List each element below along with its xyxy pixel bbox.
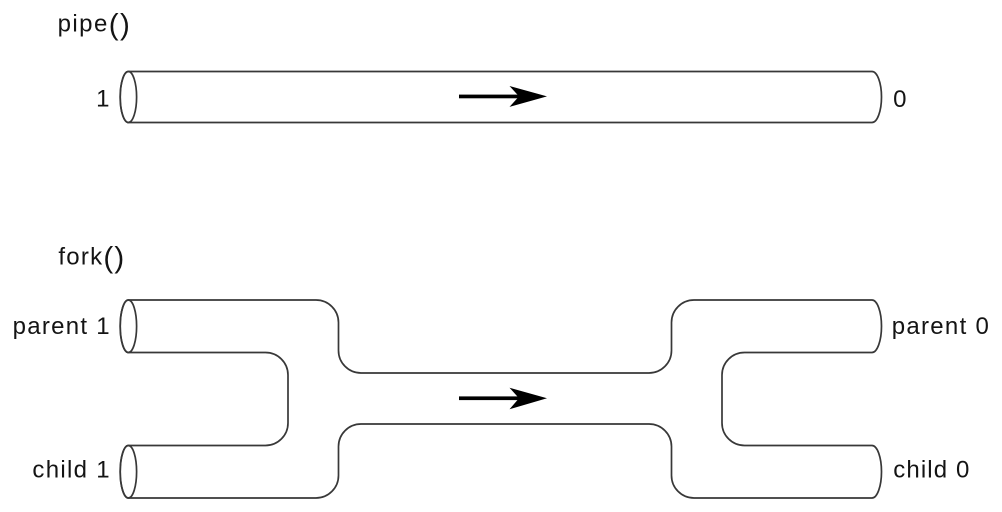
svg-text:1: 1 [96, 85, 109, 112]
svg-text:child 1: child 1 [32, 457, 110, 484]
svg-text:child 0: child 0 [893, 457, 970, 484]
svg-text:fork(): fork() [58, 242, 125, 275]
svg-text:pipe(): pipe() [58, 8, 132, 41]
svg-text:0: 0 [893, 86, 906, 113]
svg-text:parent 0: parent 0 [892, 313, 990, 340]
svg-text:parent 1: parent 1 [13, 313, 111, 340]
